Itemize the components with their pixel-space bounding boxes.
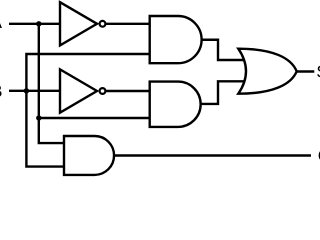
AND gate U5 (bottom, carry) [64,136,114,175]
inverter U2 (NOT B) [60,69,97,112]
wire A input [9,23,61,25]
svg-text:B: B [0,81,2,101]
junction dot A [36,21,41,26]
OR gate U6 [238,49,296,94]
wire AND2 output to OR [200,81,246,104]
bubble U2 [100,88,106,94]
wire NOT1 output to AND1 [105,23,151,25]
wire AND3 output C [113,154,311,156]
wire NOT2 output to AND2 [105,90,151,92]
wire B input [9,90,61,92]
wire B branch up to AND1 [26,54,151,91]
bubble U1 [100,21,106,27]
inverter U1 (NOT A) [60,2,97,45]
junction dot B [24,88,29,93]
AND gate U4 (middle) [150,82,201,127]
svg-text:S: S [316,62,320,82]
wire OR output S [295,70,314,72]
wire A branch down to AND2/AND3 [38,24,40,118]
junction dot A-AND2 [36,115,41,120]
wire AND1 output to OR [200,40,246,60]
wire AND2 lower input [39,117,151,119]
wire B branch down to AND3 [26,91,65,167]
AND gate U3 (top) [150,16,202,63]
svg-text:A: A [0,12,3,32]
wire A branch to AND3 [39,118,65,143]
